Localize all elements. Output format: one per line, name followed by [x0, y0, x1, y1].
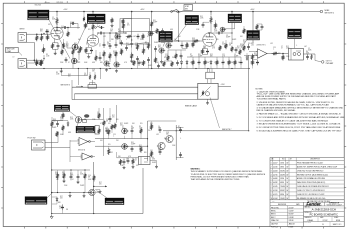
svg-text:NOTES:: NOTES: — [256, 89, 264, 91]
svg-text:SEE NOTE 3: SEE NOTE 3 — [61, 85, 71, 87]
svg-text:10K: 10K — [243, 42, 246, 44]
svg-text:C25: C25 — [273, 47, 276, 49]
svg-text:R38: R38 — [53, 119, 56, 121]
wire drop to V1A plate — [56, 11, 58, 17]
svg-text:15K: 15K — [256, 39, 259, 41]
ground tone1 — [105, 68, 108, 71]
ground chassis — [50, 214, 53, 219]
svg-text:15K: 15K — [116, 140, 119, 142]
svg-text:6.8K: 6.8K — [92, 62, 95, 64]
svg-text:C2: C2 — [80, 172, 82, 174]
svg-text:9. NO ACTUALS:JUMPERS HELD IN: 9. NO ACTUALS:JUMPERS HELD IN CASE, POST… — [257, 129, 343, 132]
wire drv rail A — [95, 138, 148, 140]
resistor R1 grid — [36, 33, 43, 41]
svg-text:C18: C18 — [135, 43, 138, 45]
svg-text:1K5: 1K5 — [127, 25, 130, 27]
capacitor C18 — [131, 128, 134, 134]
svg-text:470: 470 — [108, 123, 111, 125]
svg-text:WARNING:: WARNING: — [191, 167, 201, 170]
capacitor C29 — [123, 158, 126, 165]
svg-text:TOUCHING INTERNAL PARTS.: TOUCHING INTERNAL PARTS. — [257, 98, 287, 101]
svg-text:4-1321: 4-1321 — [273, 194, 278, 196]
svg-text:R17: R17 — [66, 44, 69, 46]
svg-text:500PF: 500PF — [158, 150, 162, 152]
wire slope top — [123, 18, 131, 20]
wire ribbon lower — [72, 94, 198, 100]
svg-text:1K5: 1K5 — [88, 29, 91, 31]
svg-text:250PF: 250PF — [52, 127, 56, 129]
wire lower comb — [67, 41, 79, 68]
svg-text:.047: .047 — [133, 36, 136, 38]
svg-text:470: 470 — [99, 184, 102, 186]
svg-text:C14: C14 — [229, 43, 232, 45]
svg-text:15K: 15K — [53, 121, 56, 123]
node input dots — [43, 33, 44, 59]
svg-text:R78 470K: R78 470K — [57, 2, 63, 4]
capacitor C34 — [106, 128, 109, 134]
junction dots extra — [51, 29, 249, 214]
wire psu vline — [52, 113, 64, 194]
capacitor C39 — [65, 57, 68, 63]
resistor R68 — [111, 18, 125, 28]
wire drop x232 — [231, 11, 233, 28]
svg-text:33K: 33K — [110, 31, 113, 33]
svg-text:R31: R31 — [198, 54, 201, 56]
resistor R59 — [61, 46, 63, 55]
ground cathode V1A — [54, 52, 57, 55]
svg-text:10K: 10K — [156, 62, 159, 64]
wire grid to V1A — [43, 55, 45, 60]
svg-text:ECO: ECO — [282, 159, 285, 161]
svg-text:6. TO CONDITIONS: BIAS AT 0 V: 6. TO CONDITIONS: BIAS AT 0 V CLASS "AB,… — [257, 119, 329, 122]
svg-text:C9: C9 — [234, 54, 236, 56]
svg-text:SEE NOTE 4: SEE NOTE 4 — [325, 12, 335, 14]
svg-text:100K: 100K — [84, 62, 87, 64]
capacitor C8 tone — [109, 43, 112, 49]
svg-text:C9: C9 — [158, 148, 160, 150]
svg-text:R4: R4 — [152, 157, 154, 159]
svg-text:R17: R17 — [112, 115, 115, 117]
svg-text:47: 47 — [68, 62, 70, 64]
svg-text:4.7K: 4.7K — [222, 56, 225, 58]
svg-text:SHEET 1 OF 1: SHEET 1 OF 1 — [333, 224, 342, 226]
resistor R65 — [219, 45, 221, 51]
pot VR5 master — [166, 43, 172, 48]
svg-text:6.8K: 6.8K — [107, 44, 110, 46]
switch S2 bright2 — [95, 26, 100, 29]
svg-text:500PF: 500PF — [152, 162, 156, 164]
resistor R61 — [133, 60, 145, 66]
wire mid join — [156, 52, 164, 63]
wire drop to V2 plate — [210, 11, 212, 16]
svg-text:220K: 220K — [70, 119, 73, 121]
svg-text:68K: 68K — [210, 56, 213, 58]
svg-text:100K: 100K — [60, 134, 63, 136]
wire bus drop — [131, 11, 133, 13]
wire foot out — [45, 143, 70, 148]
capacitor C24 — [247, 44, 250, 50]
svg-text:1K5: 1K5 — [108, 144, 111, 146]
resistor R19 — [167, 50, 169, 61]
svg-text:DESCRIPTION: DESCRIPTION — [310, 159, 320, 161]
schematic notes text — [256, 89, 346, 133]
IC block 6C10 power module — [198, 83, 231, 99]
svg-text:R9: R9 — [56, 72, 58, 74]
svg-text:C4: C4 — [84, 73, 86, 75]
wire V2 cathode — [204, 46, 206, 48]
pot VR3 middle — [114, 62, 120, 67]
transistor Q2 — [157, 142, 165, 149]
svg-text:R12: R12 — [286, 46, 289, 48]
svg-text:100K: 100K — [308, 50, 311, 52]
resistor R50 — [214, 23, 216, 29]
wire psu bottom rail — [51, 192, 94, 194]
pot VR4 mid gain — [159, 48, 165, 53]
svg-text:Fender: Fender — [306, 201, 321, 206]
resistor R52 — [98, 128, 100, 134]
svg-text:33K: 33K — [164, 138, 167, 140]
capacitor C26 — [70, 170, 73, 180]
wire bus drop — [252, 11, 254, 13]
svg-text:CAPACITOR VALUES IN MICROFARAD: CAPACITOR VALUES IN MICROFARADS, 50V TOL… — [257, 103, 330, 106]
svg-text:1K5: 1K5 — [86, 44, 89, 46]
wire mid rail2 — [168, 49, 186, 51]
resistor R11 tone — [115, 51, 117, 58]
svg-text:.022: .022 — [270, 43, 273, 45]
label box standby switch — [178, 5, 193, 13]
wire psu rail — [52, 169, 90, 171]
svg-text:500PF: 500PF — [70, 22, 74, 24]
tube V1A 7025 — [51, 27, 63, 39]
tube V2 7025 — [203, 33, 217, 47]
svg-text:4.7K: 4.7K — [204, 36, 207, 38]
wire fx links2 — [99, 127, 112, 134]
svg-text:250PF: 250PF — [126, 45, 130, 47]
svg-text:REVISIONS: REVISIONS — [278, 204, 286, 206]
capacitor C35 — [46, 29, 49, 34]
svg-text:220K: 220K — [230, 62, 233, 64]
svg-text:R7: R7 — [145, 42, 147, 44]
svg-text:C2: C2 — [308, 48, 310, 50]
label box effect — [241, 31, 260, 49]
wire drv stubs — [148, 121, 184, 158]
svg-text:.1: .1 — [296, 45, 297, 47]
svg-text:120K: 120K — [62, 174, 65, 176]
capacitor C5 cathode2 — [90, 48, 93, 54]
svg-text:4. FASTON SPADE LU _ "EQUAL G: 4. FASTON SPADE LU _ "EQUAL GROUND": CIR… — [257, 113, 342, 116]
resistor R39 — [251, 54, 253, 61]
svg-text:.1: .1 — [126, 160, 127, 162]
svg-text:1/26/98: 1/26/98 — [289, 217, 294, 219]
pot VR9 bias — [122, 128, 129, 139]
svg-text:R38: R38 — [192, 38, 195, 40]
svg-text:8. DC OFFSET/JITTER:TRIM ON 6C: 8. DC OFFSET/JITTER:TRIM ON 6C10, POST. … — [257, 126, 341, 129]
wire psu gnd rail — [52, 213, 143, 215]
pot VR7 reverb pot — [83, 114, 90, 122]
svg-text:15K: 15K — [55, 174, 58, 176]
capacitor C17 — [109, 116, 112, 122]
svg-text:68K: 68K — [100, 62, 103, 64]
svg-text:4-0417: 4-0417 — [273, 162, 278, 164]
jack J3 footswitch — [32, 140, 46, 150]
svg-text:C7: C7 — [281, 46, 283, 48]
svg-text:10K: 10K — [74, 45, 77, 47]
capacitor C13 — [154, 46, 157, 52]
wire heater bus — [27, 68, 249, 70]
wire grid join — [26, 42, 35, 63]
svg-text:500PF: 500PF — [124, 123, 128, 125]
svg-text:R31: R31 — [131, 142, 134, 144]
svg-text:220K: 220K — [46, 32, 49, 34]
svg-text:R61: R61 — [105, 128, 108, 130]
svg-text:2/21/97: 2/21/97 — [289, 207, 294, 209]
ground psu2 — [77, 180, 80, 183]
wire v1b drop — [96, 50, 100, 55]
label INPUT 1 — [20, 29, 25, 31]
svg-text:.1: .1 — [113, 136, 114, 138]
resistor R13 — [131, 48, 133, 60]
svg-text:6.8K: 6.8K — [306, 53, 309, 55]
svg-text:C2: C2 — [52, 17, 54, 19]
svg-text:5. DC VOLTAGES AND RIPPLE MEAS: 5. DC VOLTAGES AND RIPPLE MEASURED WITH … — [257, 116, 346, 119]
svg-text:33K: 33K — [118, 156, 121, 158]
svg-text:120K: 120K — [60, 119, 63, 121]
ground psu4 — [69, 193, 72, 198]
svg-text:220K: 220K — [60, 62, 63, 64]
svg-text:CHGD C17 22UF TO 47UF PER ECO: CHGD C17 22UF TO 47UF PER ECO — [297, 190, 325, 192]
svg-text:FOOT SW: FOOT SW — [28, 137, 36, 139]
svg-text:15K: 15K — [148, 130, 151, 132]
svg-text:(SEE NOTE 7): (SEE NOTE 7) — [257, 44, 267, 46]
svg-text:10K: 10K — [100, 140, 103, 142]
svg-text:4-0530: 4-0530 — [273, 166, 278, 168]
wire drv out vline — [175, 125, 177, 160]
capacitor C2 coupling — [62, 26, 68, 29]
svg-text:100K: 100K — [222, 44, 225, 46]
svg-text:6/9/95: 6/9/95 — [280, 182, 284, 184]
svg-text:R4: R4 — [131, 126, 133, 128]
svg-text:R27: R27 — [60, 196, 63, 198]
resistor R6 — [72, 49, 74, 56]
wire drop to mixer — [252, 11, 254, 43]
svg-text:.022: .022 — [156, 134, 159, 136]
svg-text:470: 470 — [112, 117, 115, 119]
svg-text:5/2/94: 5/2/94 — [280, 178, 284, 180]
svg-text:.047: .047 — [178, 128, 181, 130]
resistor R40 — [272, 52, 279, 54]
svg-text:.01 630V: .01 630V — [44, 2, 50, 4]
wire bus drop — [208, 11, 210, 13]
label box volume — [28, 10, 70, 59]
svg-text:220K: 220K — [214, 31, 217, 33]
svg-text:.1: .1 — [126, 39, 127, 41]
svg-text:+405V: +405V — [140, 9, 144, 11]
svg-text:.022: .022 — [251, 45, 254, 47]
svg-text:6.8K: 6.8K — [96, 192, 99, 194]
capacitor C27 — [77, 170, 80, 180]
capacitor C6 coupling2 — [98, 32, 104, 35]
label box speed — [76, 123, 95, 133]
svg-text:220K: 220K — [64, 185, 67, 187]
svg-text:PLOT 1=1: PLOT 1=1 — [271, 227, 278, 229]
svg-text:100K: 100K — [52, 19, 55, 21]
svg-text:CHGD R52 TO 820 OHM PER ECO: CHGD R52 TO 820 OHM PER ECO — [297, 170, 324, 172]
resistor R12 slope — [122, 19, 126, 34]
svg-text:33K: 33K — [92, 71, 95, 73]
resistor R30 — [103, 120, 105, 127]
svg-text:R45: R45 — [68, 74, 71, 76]
label box power amp in — [97, 191, 125, 205]
wire cathode pair2 — [86, 48, 92, 55]
svg-text:5/14/97: 5/14/97 — [289, 211, 294, 213]
svg-text:4/22/93: 4/22/93 — [280, 174, 285, 176]
node output terminal — [321, 61, 333, 65]
resistor R53 — [111, 124, 113, 130]
svg-text:500PF: 500PF — [148, 65, 152, 67]
node U2A out — [78, 141, 91, 152]
svg-text:6.8K: 6.8K — [68, 132, 71, 134]
svg-text:C25: C25 — [126, 158, 129, 160]
resistor R27 — [51, 121, 53, 128]
svg-text:68K: 68K — [139, 147, 142, 149]
resistor R58 — [39, 60, 41, 66]
wire B+ top bus — [44, 11, 320, 13]
svg-text:.022: .022 — [84, 27, 87, 29]
svg-text:C14: C14 — [106, 119, 109, 121]
svg-text:820: 820 — [116, 119, 119, 121]
label see note 3 — [61, 85, 84, 88]
svg-text:33K: 33K — [278, 53, 281, 55]
wire bus drop — [151, 11, 153, 13]
svg-text:NFBK: NFBK — [325, 10, 331, 12]
pot VR8 speed — [75, 117, 83, 123]
svg-text:15K: 15K — [95, 36, 98, 38]
capacitor C15 coupling3 — [208, 32, 222, 35]
svg-text:7/16/96: 7/16/96 — [280, 186, 285, 188]
svg-text:THIS SCHEMATIC IS PROVIDED FOR: THIS SCHEMATIC IS PROVIDED FOR USE BY QU… — [191, 170, 263, 173]
svg-text:C18: C18 — [110, 29, 113, 31]
svg-text:1K5: 1K5 — [84, 75, 87, 77]
capacitor C10 — [130, 41, 133, 48]
svg-text:4-1095: 4-1095 — [273, 186, 278, 188]
svg-text:C7: C7 — [99, 44, 101, 46]
resistor R33 — [108, 146, 110, 155]
svg-text:R22: R22 — [210, 54, 213, 56]
wire J2 to grid — [26, 59, 44, 61]
svg-text:120K: 120K — [119, 43, 122, 45]
svg-text:R31: R31 — [126, 43, 129, 45]
svg-text:.1: .1 — [97, 25, 98, 27]
component value labels 2 — [48, 22, 307, 211]
pot VR1 volume — [71, 44, 79, 64]
svg-text:820: 820 — [40, 31, 43, 33]
resistor R62 — [163, 61, 165, 67]
svg-text:500PF: 500PF — [232, 39, 236, 41]
svg-text:R45: R45 — [40, 29, 43, 31]
svg-text:250PF: 250PF — [154, 42, 158, 44]
resistor R2 68K — [36, 44, 45, 66]
resistor R37 — [150, 151, 152, 158]
resistor R9 tone — [103, 51, 105, 58]
label +15V — [221, 84, 226, 86]
svg-text:C21: C21 — [222, 54, 225, 56]
svg-text:100K: 100K — [80, 174, 83, 176]
svg-text:.022: .022 — [59, 208, 62, 210]
svg-text:250PF: 250PF — [76, 62, 80, 64]
jack J1 input 1 — [18, 33, 26, 43]
svg-text:.022: .022 — [103, 36, 106, 38]
wire fx send — [222, 28, 232, 44]
resistor R20 grid stop — [193, 40, 200, 42]
svg-text:.1: .1 — [180, 138, 181, 140]
resistor R57 — [46, 34, 48, 41]
svg-text:R12: R12 — [70, 117, 73, 119]
svg-text:C14: C14 — [61, 26, 64, 28]
svg-text:470: 470 — [237, 48, 240, 50]
svg-text:R22: R22 — [203, 46, 206, 48]
svg-text:820: 820 — [150, 125, 153, 127]
wire NFB line — [163, 130, 249, 132]
svg-text:470: 470 — [48, 24, 51, 26]
wire J1 to grid — [26, 33, 50, 35]
resistor R43 — [56, 170, 58, 180]
svg-text:470: 470 — [132, 62, 135, 64]
capacitor C32 — [202, 22, 205, 28]
svg-text:47: 47 — [99, 46, 101, 48]
wire NFB up — [248, 55, 250, 131]
ground 6C10 — [206, 99, 209, 104]
svg-text:68K: 68K — [58, 202, 61, 204]
svg-text:C18: C18 — [166, 132, 169, 134]
wire drop tone supply — [131, 11, 133, 40]
pot VR6 reverb — [220, 27, 226, 32]
svg-text:C2: C2 — [222, 42, 224, 44]
svg-text:47: 47 — [122, 128, 124, 130]
svg-text:.1: .1 — [273, 49, 274, 51]
resistor R21 plate V2 — [210, 16, 212, 33]
svg-text:R9: R9 — [46, 54, 48, 56]
capacitor C4 — [78, 49, 81, 56]
svg-text:R61: R61 — [251, 43, 254, 45]
diode network row — [186, 57, 243, 69]
svg-text:1K5: 1K5 — [164, 57, 167, 59]
svg-text:R31: R31 — [153, 20, 156, 22]
capacitor C12 — [147, 57, 150, 63]
resistor R42 — [310, 54, 312, 60]
capacitor C43 — [235, 47, 238, 53]
resistor R34 — [140, 128, 142, 135]
svg-text:R7: R7 — [190, 54, 192, 56]
capacitor C41 — [157, 64, 160, 69]
resistor R41 — [282, 53, 284, 61]
resistor R64 — [186, 42, 194, 49]
ground bm3 — [155, 165, 158, 168]
wire mid comb — [138, 43, 149, 69]
title block drawing info — [270, 200, 344, 229]
svg-text:R22: R22 — [139, 145, 142, 147]
svg-text:47: 47 — [72, 179, 74, 181]
svg-text:33K: 33K — [135, 45, 138, 47]
svg-text:250PF: 250PF — [153, 22, 157, 24]
svg-text:B SIZE: B SIZE — [289, 227, 294, 229]
ground tone2 — [115, 69, 118, 72]
svg-text:250PF: 250PF — [80, 185, 84, 187]
resistor R56 — [239, 49, 241, 55]
diode D3 — [246, 53, 248, 61]
svg-text:.047: .047 — [190, 56, 193, 58]
resistor R32 — [108, 129, 110, 139]
svg-text:R61: R61 — [84, 25, 87, 27]
